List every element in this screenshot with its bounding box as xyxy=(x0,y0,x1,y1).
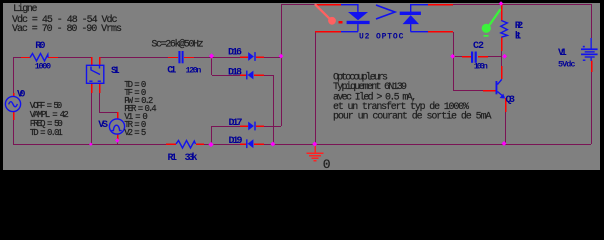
svg-text:Sc=26k@50Hz: Sc=26k@50Hz xyxy=(151,38,203,50)
svg-text:S1: S1 xyxy=(111,66,120,77)
svg-text:C1: C1 xyxy=(167,66,176,77)
svg-text:TD = 0.01: TD = 0.01 xyxy=(30,128,63,138)
svg-text:pour un courant de sortie de 5: pour un courant de sortie de 5mA xyxy=(333,110,492,122)
svg-text:Vac = 70 - 80 -90 Vrms: Vac = 70 - 80 -90 Vrms xyxy=(12,24,122,35)
svg-text:R2: R2 xyxy=(515,21,524,32)
svg-text:D16: D16 xyxy=(228,48,242,59)
svg-text:C2: C2 xyxy=(473,41,484,52)
svg-text:1000: 1000 xyxy=(35,62,51,72)
svg-text:5Vdc: 5Vdc xyxy=(558,60,576,70)
svg-text:V0: V0 xyxy=(17,90,26,101)
svg-text:V1: V1 xyxy=(558,48,567,59)
svg-text:120n: 120n xyxy=(186,66,202,76)
svg-text:D19: D19 xyxy=(229,136,243,147)
svg-text:R1: R1 xyxy=(168,153,178,164)
svg-text:U2 OPTOC: U2 OPTOC xyxy=(359,33,404,42)
svg-text:33k: 33k xyxy=(185,152,198,164)
svg-text:R0: R0 xyxy=(35,41,45,52)
svg-text:D18: D18 xyxy=(228,68,242,79)
svg-text:Q3: Q3 xyxy=(506,95,516,106)
svg-text:Typiquement 6N139: Typiquement 6N139 xyxy=(333,81,407,93)
svg-text:1k: 1k xyxy=(515,31,522,43)
svg-text:VS: VS xyxy=(98,120,108,131)
svg-text:D17: D17 xyxy=(229,118,243,129)
svg-text:V2 = 5: V2 = 5 xyxy=(124,128,146,138)
svg-text:Ligne: Ligne xyxy=(13,3,38,15)
svg-text:100n: 100n xyxy=(474,62,488,72)
svg-text:0: 0 xyxy=(323,157,331,172)
